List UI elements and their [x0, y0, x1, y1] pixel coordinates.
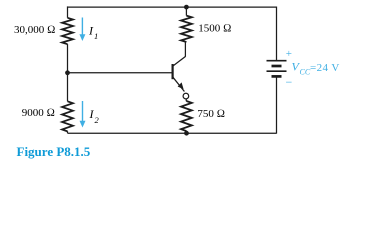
wire emitter to resistor	[185, 99, 187, 102]
svg-text:30,000 Ω: 30,000 Ω	[14, 24, 55, 36]
svg-text:1500 Ω: 1500 Ω	[198, 23, 231, 35]
resistor 1500 ohm	[181, 16, 192, 42]
svg-text:+: +	[286, 48, 292, 60]
svg-text:−: −	[286, 75, 293, 89]
node base junction dot	[65, 70, 70, 75]
resistor 9000 ohm	[62, 101, 73, 131]
svg-text:2: 2	[95, 115, 100, 125]
svg-text:750 Ω: 750 Ω	[197, 108, 225, 120]
wire left top stub	[67, 6, 69, 17]
resistor 750 ohm	[181, 101, 192, 131]
resistor 30,000 ohm	[62, 18, 73, 44]
wire left middle	[67, 44, 69, 101]
current arrow I2	[82, 101, 84, 122]
wire right bottom	[276, 78, 278, 134]
battery plate short bottom	[272, 75, 282, 78]
node bottom junction dot	[184, 131, 189, 136]
svg-text:=24 V: =24 V	[310, 62, 340, 74]
wire left bottom stub	[67, 131, 69, 133]
wire top rail	[68, 6, 277, 8]
figure caption	[17, 144, 91, 160]
battery plate long	[267, 70, 287, 72]
svg-text:1: 1	[94, 31, 98, 41]
transistor emitter lead with arrow	[173, 77, 184, 91]
emitter terminal circle	[183, 93, 189, 99]
wire bottom rail	[68, 132, 277, 134]
current arrow I1	[81, 18, 83, 36]
svg-text:9000 Ω: 9000 Ω	[22, 107, 55, 119]
wire middle top stub	[185, 7, 187, 16]
battery plate short	[272, 65, 282, 68]
battery VCC plate long top	[267, 60, 287, 62]
node top junction dot	[184, 5, 189, 10]
wire collector stub	[184, 42, 186, 57]
transistor Q1 base bar	[172, 64, 174, 79]
wire base lead	[68, 72, 173, 74]
transistor collector lead	[173, 57, 186, 67]
wire right top	[276, 7, 278, 61]
